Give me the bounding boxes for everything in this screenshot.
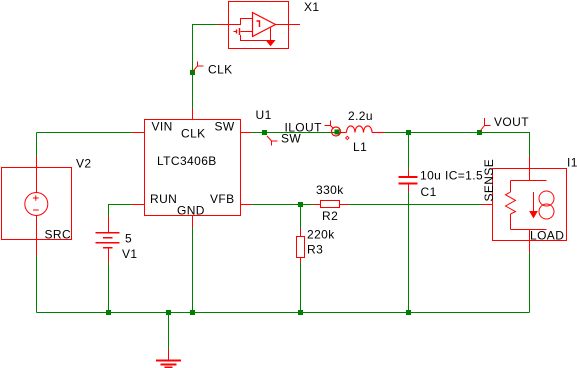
node junction bus battery	[106, 310, 111, 315]
resistor R2	[314, 201, 349, 208]
svg-text:LTC3406B: LTC3406B	[157, 154, 217, 168]
svg-text:R2: R2	[322, 209, 338, 223]
node junction C1 top	[406, 130, 411, 135]
wire load bottom to bus	[529, 253, 531, 313]
svg-text:C1: C1	[421, 185, 437, 199]
node junction SW	[262, 130, 267, 135]
svg-text:220k: 220k	[307, 228, 335, 242]
wire ground stub	[168, 313, 170, 350]
wire top rail from V2 to VIN	[37, 132, 132, 134]
load I1	[481, 157, 567, 253]
svg-text:I1: I1	[567, 156, 577, 170]
svg-text:R3: R3	[307, 243, 323, 257]
battery V1	[96, 217, 120, 263]
svg-text:U1: U1	[256, 108, 272, 122]
svg-text:2.2u: 2.2u	[348, 109, 373, 123]
wire CLK vertical	[193, 25, 218, 109]
capacitor C1	[399, 170, 418, 192]
wire IC GND to bus	[192, 228, 194, 313]
svg-text:X1: X1	[304, 0, 319, 14]
svg-text:CLK: CLK	[208, 63, 233, 77]
node junction bus IC GND	[190, 310, 195, 315]
svg-text:VFB: VFB	[210, 192, 235, 206]
clock source X1	[218, 2, 301, 49]
wire V2 bottom vertical	[36, 256, 38, 313]
svg-text:LOAD: LOAD	[530, 229, 564, 243]
svg-text:V1: V1	[122, 247, 137, 261]
wire battery to RUN	[109, 205, 132, 217]
wire VFB to R2	[252, 204, 314, 206]
voltage source V2 SRC	[2, 157, 72, 256]
node junction ILOUT probe	[335, 130, 340, 135]
ground	[156, 350, 181, 368]
node junction bus C1	[406, 310, 411, 315]
svg-text:10u IC=1.5: 10u IC=1.5	[420, 169, 483, 183]
svg-text:330k: 330k	[316, 183, 344, 197]
svg-text:SRC: SRC	[45, 228, 72, 242]
svg-text:5: 5	[125, 232, 132, 246]
svg-text:RUN: RUN	[150, 192, 177, 206]
op-amp U1 LTC3406B IC box	[132, 109, 253, 228]
svg-text:L1: L1	[353, 140, 367, 154]
node junction bus ground	[166, 310, 171, 315]
svg-text:SW: SW	[215, 120, 235, 134]
inductor L1	[342, 126, 385, 140]
wire V2 top vertical	[36, 133, 38, 157]
svg-text:V2: V2	[76, 157, 91, 171]
svg-text:VIN: VIN	[152, 120, 173, 134]
wire SW to L1	[252, 132, 342, 134]
wire bottom ground bus	[37, 312, 530, 314]
wire C1 bottom to bus	[408, 192, 410, 313]
node VOUT label tick	[481, 118, 491, 131]
svg-text:GND: GND	[177, 204, 205, 218]
wire R3 bottom to bus	[300, 263, 302, 313]
wire R3 top	[300, 205, 302, 229]
node junction bus R3	[298, 310, 303, 315]
current probe ILOUT	[325, 121, 341, 137]
node junction CLK	[190, 70, 195, 75]
resistor R3	[297, 229, 305, 263]
node CLK label tick	[193, 62, 204, 72]
svg-text:VOUT: VOUT	[494, 115, 529, 129]
wire C1 top	[408, 133, 410, 170]
node SW label tick	[267, 136, 278, 146]
node junction R2-R3	[298, 202, 303, 207]
svg-text:CLK: CLK	[181, 127, 206, 141]
wire battery bottom to bus	[108, 263, 110, 313]
wire R2 to load sense	[349, 204, 482, 206]
svg-text:SENSE: SENSE	[482, 159, 496, 202]
node junction VOUT	[477, 130, 482, 135]
svg-text:ILOUT: ILOUT	[285, 121, 323, 135]
wire L1 to load corner	[385, 133, 530, 157]
